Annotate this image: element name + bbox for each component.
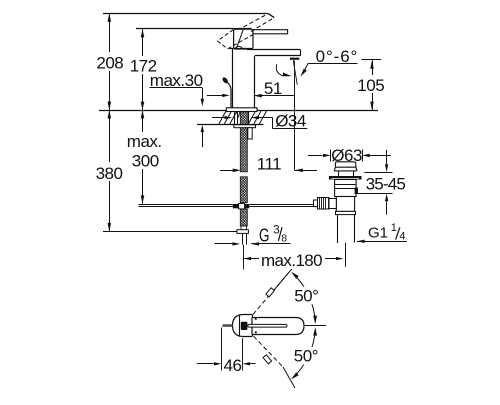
svg-text:35-45: 35-45 — [366, 175, 406, 194]
dimension 46 — [197, 328, 256, 375]
dimension 380 — [94, 110, 124, 231]
label Ø34 — [212, 112, 307, 131]
dimension 105 — [356, 60, 389, 111]
svg-text:G: G — [259, 225, 270, 245]
top view slot — [248, 324, 287, 327]
lever marker upper — [266, 288, 275, 297]
extension line lever rest height — [136, 28, 252, 30]
pull rod — [221, 76, 231, 108]
svg-text:208: 208 — [96, 53, 123, 72]
drain base ring — [336, 211, 356, 214]
svg-text:max.180: max.180 — [261, 251, 322, 270]
svg-text:0°-6°: 0°-6° — [316, 47, 359, 66]
svg-text:50°: 50° — [294, 347, 318, 366]
drain axis extension line — [345, 243, 347, 268]
svg-text:105: 105 — [357, 76, 384, 95]
svg-text:380: 380 — [96, 164, 123, 183]
top view cartridge — [241, 322, 248, 330]
drain tailpipe G1 1/4 — [338, 215, 355, 243]
svg-text:50°: 50° — [294, 287, 318, 306]
top view step — [252, 315, 254, 337]
angle 50° upper — [291, 272, 321, 324]
threaded shank upper — [240, 128, 247, 172]
lever marker lower — [263, 355, 272, 364]
G3/8 thread tube — [243, 233, 247, 244]
lever handle bar — [251, 30, 288, 34]
svg-text:G1: G1 — [368, 224, 388, 241]
dimension 51 — [254, 79, 295, 98]
hose junction fitting — [233, 203, 249, 209]
dimension 172 — [128, 29, 159, 110]
svg-text:Ø63: Ø63 — [331, 146, 362, 165]
drain body lower — [336, 197, 354, 212]
top view axis line — [304, 325, 326, 327]
svg-text:max.: max. — [127, 132, 162, 151]
counter hole edges — [235, 111, 249, 125]
aerator centerline — [294, 61, 296, 171]
shank step — [241, 226, 247, 230]
drain neck — [339, 171, 354, 176]
counter bottom line — [197, 124, 264, 126]
label G1 1/4 — [357, 222, 407, 243]
dimension 208 — [94, 13, 124, 110]
svg-text:3: 3 — [273, 224, 279, 236]
hose end extension line — [103, 231, 237, 233]
supply nut G3/8 — [237, 230, 249, 234]
svg-text:1: 1 — [391, 222, 397, 234]
dimension Ø63 — [308, 146, 391, 165]
spout — [247, 50, 301, 56]
dimension max.30 — [150, 71, 230, 147]
handle swivel line lower 50° — [244, 326, 296, 388]
top extension line (lever max height) — [103, 13, 268, 15]
svg-text:51: 51 — [264, 79, 282, 98]
drain seal flange — [329, 176, 362, 180]
top view body — [233, 315, 253, 337]
dimension 111 — [220, 154, 317, 173]
drain plug cap base — [334, 167, 357, 171]
svg-text:300: 300 — [132, 152, 159, 171]
dimension 0°-6° — [276, 47, 358, 77]
drain side inlet — [314, 198, 337, 210]
drain body upper — [335, 180, 358, 197]
mounting washer plate — [234, 125, 256, 128]
faucet axis extension line — [243, 245, 245, 270]
svg-text:4: 4 — [399, 230, 405, 242]
counter top line — [99, 110, 378, 112]
angle 50° lower — [291, 327, 322, 379]
svg-text:111: 111 — [257, 154, 281, 173]
dimension max.180 — [244, 251, 344, 270]
svg-text:8: 8 — [281, 232, 287, 244]
svg-text:46: 46 — [224, 356, 242, 375]
threaded shank lower — [240, 209, 247, 226]
drain plug cap top — [335, 162, 355, 167]
phantom raised lever — [217, 14, 274, 49]
label G3/8 — [215, 224, 291, 245]
handle swivel line upper 50° — [244, 269, 292, 325]
flexible hose left — [139, 205, 233, 207]
counter hatching — [219, 111, 267, 124]
aerator — [290, 58, 299, 60]
escutcheon flange — [226, 108, 257, 112]
top view supply stub — [222, 324, 232, 327]
faucet body — [229, 48, 254, 108]
threaded shank in hole — [237, 112, 248, 124]
flexible hose right — [249, 205, 313, 207]
dimension max.300 — [126, 110, 164, 204]
threaded shank middle — [240, 177, 247, 203]
top view body chord — [239, 315, 241, 337]
guide tube — [248, 128, 252, 139]
handle base — [234, 29, 253, 49]
top view spout — [252, 318, 304, 335]
stream tilt line — [293, 60, 297, 85]
svg-text:Ø34: Ø34 — [275, 112, 306, 131]
dimension 35-45 — [357, 150, 405, 215]
top view screws — [255, 318, 257, 334]
